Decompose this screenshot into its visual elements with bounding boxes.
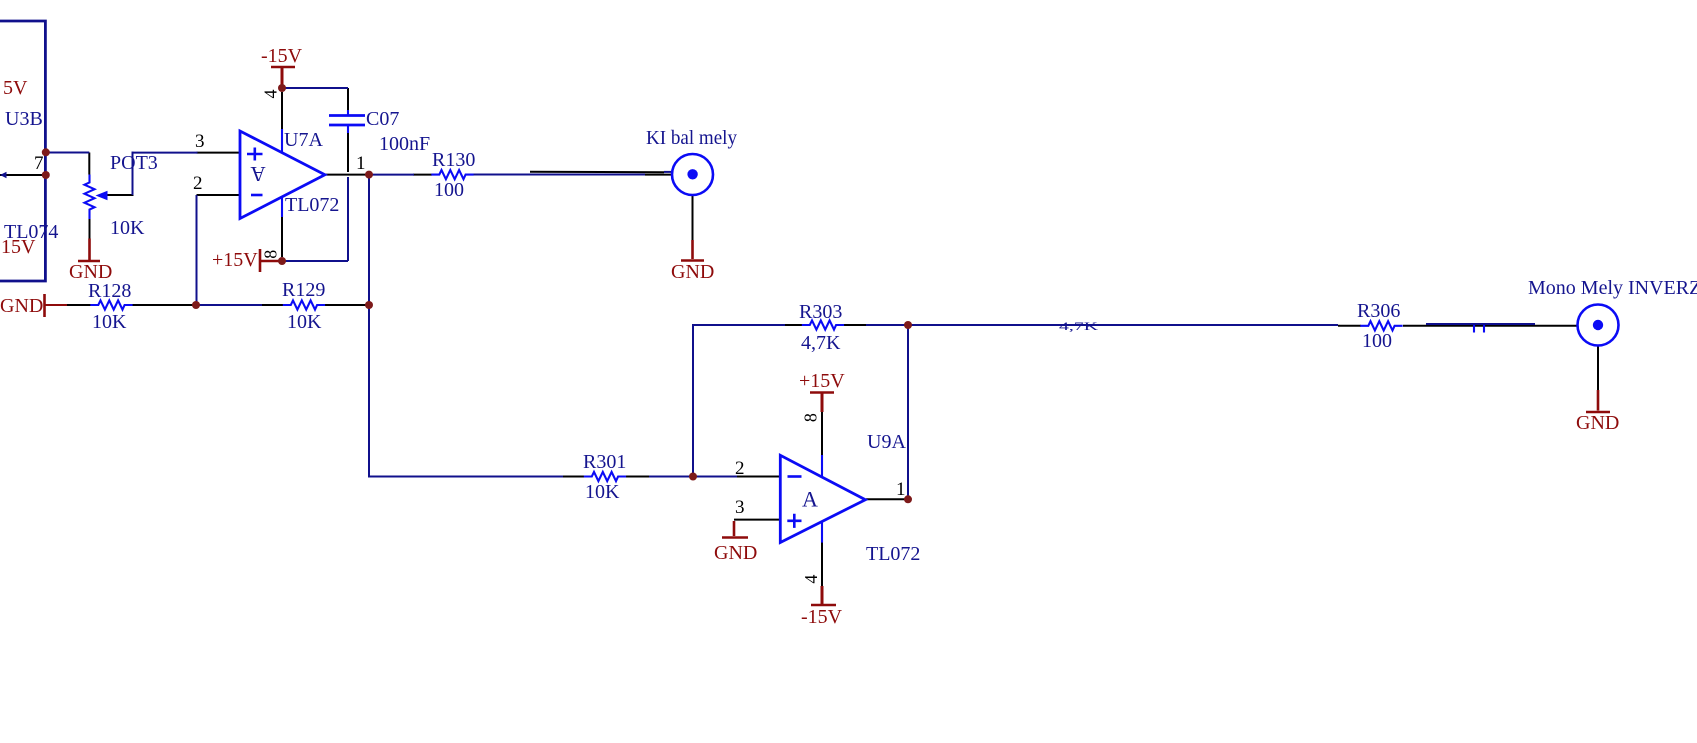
svg-text:R128: R128: [88, 280, 131, 302]
svg-text:1: 1: [356, 153, 366, 174]
svg-text:100: 100: [434, 179, 464, 201]
svg-text:100: 100: [1362, 330, 1392, 352]
svg-text:GND: GND: [1576, 412, 1619, 434]
svg-text:GND: GND: [69, 261, 112, 283]
svg-text:7: 7: [34, 153, 44, 174]
svg-text:KI bal mely: KI bal mely: [646, 127, 737, 149]
svg-text:5V: 5V: [3, 77, 28, 99]
svg-text:10K: 10K: [585, 481, 620, 503]
svg-text:4: 4: [261, 89, 281, 98]
svg-text:4: 4: [801, 575, 821, 584]
svg-text:+15V: +15V: [212, 249, 258, 271]
svg-text:8: 8: [261, 250, 281, 259]
svg-text:R129: R129: [282, 279, 325, 301]
svg-text:TL072: TL072: [285, 194, 339, 216]
svg-text:R303: R303: [799, 301, 842, 323]
svg-text:U9A: U9A: [867, 431, 906, 453]
svg-text:POT3: POT3: [110, 152, 158, 174]
svg-text:U3B: U3B: [5, 108, 43, 130]
svg-text:10K: 10K: [287, 311, 322, 333]
svg-text:10K: 10K: [110, 217, 145, 239]
svg-text:GND: GND: [0, 295, 43, 317]
svg-text:8: 8: [801, 413, 821, 422]
svg-text:15V: 15V: [1, 236, 36, 258]
svg-text:R130: R130: [432, 149, 475, 171]
svg-text:R301: R301: [583, 451, 626, 473]
svg-text:GND: GND: [714, 542, 757, 564]
svg-text:C07: C07: [366, 108, 399, 130]
svg-text:-15V: -15V: [261, 45, 303, 67]
svg-text:TL072: TL072: [866, 543, 920, 565]
svg-text:3: 3: [735, 497, 745, 518]
svg-text:+15V: +15V: [799, 370, 845, 392]
svg-text:2: 2: [735, 458, 745, 479]
svg-text:Mono Mely INVERZ: Mono Mely INVERZ: [1528, 277, 1697, 299]
svg-text:A: A: [250, 162, 266, 186]
svg-text:4,7K: 4,7K: [801, 332, 841, 354]
svg-text:10K: 10K: [92, 311, 127, 333]
svg-text:-15V: -15V: [801, 606, 843, 628]
svg-text:A: A: [802, 486, 818, 511]
svg-text:1: 1: [896, 479, 906, 500]
svg-text:R306: R306: [1357, 300, 1400, 322]
svg-text:100nF: 100nF: [379, 133, 430, 155]
svg-text:3: 3: [195, 131, 205, 152]
svg-text:U7A: U7A: [284, 129, 323, 151]
svg-text:2: 2: [193, 173, 203, 194]
svg-text:GND: GND: [671, 261, 714, 283]
